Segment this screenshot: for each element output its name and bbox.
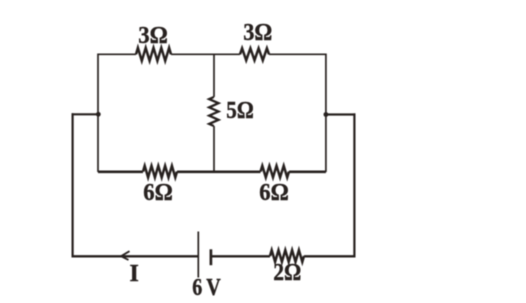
svg-text:6Ω: 6Ω <box>259 180 289 206</box>
svg-text:I: I <box>130 261 139 287</box>
wire: right outer vertical <box>353 113 355 257</box>
junction: right stub meets inner-rect right wire <box>324 112 329 117</box>
battery V1 negative plate (short) <box>210 249 213 265</box>
wire: middle branch upper <box>213 54 215 97</box>
resistor R5 6Ω (bottom right) <box>261 166 290 178</box>
wire: left stub to outer loop <box>72 113 99 115</box>
svg-text:6Ω: 6Ω <box>143 180 173 206</box>
wire: inner-rectangle right vertical <box>325 54 327 173</box>
resistor R3 5Ω (middle branch) <box>209 97 218 126</box>
svg-text:5Ω: 5Ω <box>226 98 254 124</box>
wire: right stub to outer loop <box>325 113 356 115</box>
svg-text:3Ω: 3Ω <box>243 20 272 46</box>
svg-text:6 V: 6 V <box>192 275 221 301</box>
current arrow (pointing left) <box>121 251 130 260</box>
resistor R6 2Ω (bottom) <box>270 250 304 262</box>
wire: bottom outer, left of battery <box>72 255 198 257</box>
battery V1 positive plate (long) <box>197 232 199 278</box>
wire: inner bottom, right segment <box>289 171 326 174</box>
svg-text:3Ω: 3Ω <box>138 23 168 49</box>
resistor R1 3Ω (top left) <box>136 48 171 61</box>
wire: inner bottom, middle segment <box>177 171 261 174</box>
wire: top side, middle segment <box>171 53 240 55</box>
junction: left stub meets inner-rect left wire <box>96 112 101 117</box>
resistor R2 3Ω (top right) <box>240 48 269 60</box>
wire: inner-rectangle left vertical <box>97 54 99 173</box>
wire: top side, left segment <box>98 53 136 55</box>
wire: left outer vertical <box>71 113 73 257</box>
wire: bottom outer, right of 2Ω <box>304 255 356 257</box>
wire: inner bottom, left segment <box>98 171 143 174</box>
resistor R4 6Ω (bottom left) <box>143 166 177 178</box>
wire: middle branch lower <box>213 126 215 172</box>
wire: bottom outer, battery to 2Ω <box>212 255 271 257</box>
wire: top side, right segment <box>269 53 326 55</box>
svg-text:2Ω: 2Ω <box>273 260 301 286</box>
